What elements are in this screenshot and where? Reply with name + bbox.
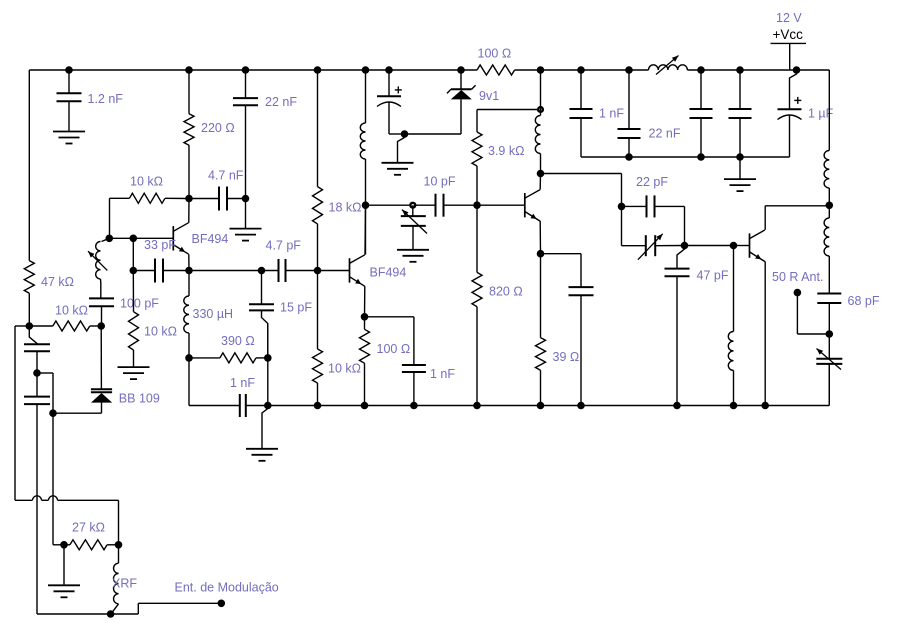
svg-text:68 pF: 68 pF xyxy=(848,294,880,308)
svg-text:3.9 kΩ: 3.9 kΩ xyxy=(488,144,524,158)
capacitor C21 33pF xyxy=(133,259,189,283)
wire between base junctions xyxy=(109,237,133,239)
ground below C1 xyxy=(53,132,85,144)
node top rail junctions xyxy=(65,66,800,74)
svg-text:10 kΩ: 10 kΩ xyxy=(130,175,163,189)
wire 3.9k top to ring xyxy=(477,109,537,111)
resistor R12 10k xyxy=(129,271,139,368)
svg-text:390 Ω: 390 Ω xyxy=(221,334,255,348)
label 22 pF xyxy=(636,175,668,189)
svg-text:BB 109: BB 109 xyxy=(119,392,160,406)
node 27k right xyxy=(115,541,123,549)
wire 47k node to left xyxy=(15,326,29,500)
inductor L2 xyxy=(535,70,540,174)
node Q2 emitter junction xyxy=(361,313,369,321)
resistor R4 100ohm xyxy=(477,65,515,75)
label 100 pF xyxy=(120,297,159,311)
wire Q3 collector xyxy=(539,174,541,190)
label 47 kohm xyxy=(41,275,74,289)
capacitor C23 xyxy=(24,326,50,373)
label 100 ohm vertical xyxy=(377,342,411,356)
ground below inner rail xyxy=(724,157,756,191)
wire inner rail xyxy=(581,156,790,158)
node Q4 base junction xyxy=(730,242,738,250)
inductor L8 XRF xyxy=(111,545,119,614)
resistor R1 220ohm xyxy=(184,70,194,199)
diode D2 BB109 xyxy=(53,326,112,413)
capacitor C2 22nF xyxy=(233,70,258,199)
ground below bottom rail xyxy=(246,406,278,461)
label 390 ohm xyxy=(221,334,255,348)
wire Q2 emitter xyxy=(364,286,366,317)
svg-text:330 µH: 330 µH xyxy=(193,307,234,321)
arrow C13 trimmer xyxy=(638,234,663,260)
svg-text:100 Ω: 100 Ω xyxy=(377,342,411,356)
wire down to 27k right xyxy=(118,500,120,545)
label 68 pF xyxy=(848,294,880,308)
svg-text:15 pF: 15 pF xyxy=(280,301,312,315)
label BB 109 xyxy=(119,392,160,406)
capacitor C1 1.2nF xyxy=(57,70,82,132)
label 22 nF xyxy=(265,95,297,109)
wire hop horizontal xyxy=(15,496,119,501)
ground below 27k xyxy=(48,545,80,598)
label 820 ohm xyxy=(489,285,523,299)
resistor R7 820ohm xyxy=(472,205,482,405)
svg-text:39 Ω: 39 Ω xyxy=(553,350,580,364)
arrow L3 xyxy=(656,56,679,75)
capacitor C24 xyxy=(24,373,50,614)
node 68pF bottom xyxy=(826,330,834,338)
node 15pF bottom xyxy=(264,354,272,362)
node D2 return xyxy=(49,409,57,417)
inductor L6 xyxy=(824,205,829,293)
wire D2 return down xyxy=(53,413,64,545)
wire bottom rail xyxy=(246,364,830,406)
wire Q2 collector xyxy=(364,205,367,254)
label 15 pF xyxy=(280,301,312,315)
node 22nF bottom xyxy=(242,195,250,203)
label 10 pF xyxy=(424,175,456,189)
node modulation terminal xyxy=(218,600,226,608)
svg-text:47 kΩ: 47 kΩ xyxy=(41,275,74,289)
label 1 nF x581 xyxy=(599,107,624,121)
capacitor C10 68pF xyxy=(817,294,841,335)
capacitor C5 1nF xyxy=(570,70,593,157)
resistor R8 100ohm xyxy=(360,317,370,406)
node L1 bottom xyxy=(362,201,370,209)
wire loop to Q4 base xyxy=(685,245,734,247)
ground below 22nF xyxy=(230,199,262,241)
label 1.2 nF xyxy=(88,92,124,106)
resistor R10 47k xyxy=(24,261,34,326)
capacitor C7 xyxy=(690,70,713,157)
resistor R13 27k xyxy=(64,540,119,550)
capacitor C8 xyxy=(729,70,752,157)
svg-text:18 kΩ: 18 kΩ xyxy=(329,201,362,215)
svg-text:22 pF: 22 pF xyxy=(636,175,668,189)
wire 330uH down xyxy=(188,358,190,406)
resistor R14 390ohm xyxy=(189,353,268,363)
inductor L7 variable xyxy=(96,238,110,298)
svg-text:4.7 pF: 4.7 pF xyxy=(266,239,302,253)
plus sign C4 xyxy=(395,86,402,93)
label 12 V xyxy=(776,11,802,25)
inductor L4 xyxy=(728,246,733,406)
label 50 R Ant xyxy=(772,270,823,284)
resistor R6 39ohm xyxy=(536,254,546,406)
wire Q3 base xyxy=(477,204,525,206)
label 4.7 pF xyxy=(266,239,302,253)
svg-text:22 nF: 22 nF xyxy=(265,95,297,109)
svg-text:820 Ω: 820 Ω xyxy=(489,285,523,299)
wire top rail left section xyxy=(29,69,477,71)
node 22pF right bottom xyxy=(681,242,689,250)
label 18 kohm xyxy=(329,201,362,215)
label 1 nF x414 xyxy=(430,367,455,381)
node R11 right xyxy=(97,322,105,330)
node Q2 base junction xyxy=(314,267,322,275)
svg-text:100 Ω: 100 Ω xyxy=(478,47,512,61)
capacitor C11 trimmer xyxy=(816,334,842,406)
inductor L1 xyxy=(360,70,365,205)
label Ent. de Modulacao xyxy=(175,581,279,595)
wire 390 bottom junction xyxy=(267,324,269,406)
label 47 pF xyxy=(697,269,729,283)
node 33pF left xyxy=(130,267,138,275)
inductor L5 xyxy=(824,151,829,206)
svg-text:220 Ω: 220 Ω xyxy=(201,121,235,135)
wire Q1 emitter xyxy=(188,254,190,270)
svg-text:+Vcc: +Vcc xyxy=(773,27,804,42)
node XRF bottom xyxy=(107,610,115,618)
arrow C17 trimmer xyxy=(402,210,427,234)
label 1 nF bottom xyxy=(230,376,255,390)
node 330uH bottom xyxy=(185,354,193,362)
capacitor C13 trimmer xyxy=(622,206,685,256)
node ring trimmer top xyxy=(409,202,416,209)
wire Q2 base xyxy=(318,270,350,272)
wire to 22pF loop xyxy=(541,174,622,207)
node C4/zener bottom xyxy=(401,130,409,138)
capacitor C19 15pF xyxy=(249,271,274,358)
svg-text:47 pF: 47 pF xyxy=(697,269,729,283)
label 39 ohm xyxy=(553,350,580,364)
inductor L3 variable xyxy=(649,65,688,70)
svg-text:10 kΩ: 10 kΩ xyxy=(328,362,361,376)
wire bottom xyxy=(37,603,221,614)
wire bottom rail left xyxy=(189,405,240,407)
svg-text:22 nF: 22 nF xyxy=(649,127,681,141)
capacitor C16 10pF xyxy=(366,194,478,217)
wire base junction vertical xyxy=(132,238,134,270)
label 100 ohm top xyxy=(478,47,512,61)
label 33 pF xyxy=(144,238,176,252)
label 4.7 nF xyxy=(208,169,244,183)
capacitor C6 22nF xyxy=(618,70,641,157)
node Q1 emitter junction xyxy=(185,267,193,275)
node R2 right xyxy=(185,195,193,203)
capacitor C17 trimmer xyxy=(401,205,426,250)
svg-text:33 pF: 33 pF xyxy=(144,238,176,252)
node 47k bottom xyxy=(26,322,34,330)
svg-text:9v1: 9v1 xyxy=(479,89,499,103)
node L2 bottom xyxy=(537,170,545,178)
wire top rail right section xyxy=(687,69,829,71)
node bottom rail junctions xyxy=(264,402,769,410)
capacitor C20 4.7pF xyxy=(262,259,318,282)
label 220 ohm xyxy=(201,121,235,135)
node C23 bottom xyxy=(33,369,41,377)
wire Q4 emitter xyxy=(764,261,766,405)
label 3.9 kohm xyxy=(488,144,524,158)
label 10 kohm mid xyxy=(55,304,88,318)
wire Q1 collector xyxy=(188,199,190,223)
arrow L7 xyxy=(88,251,107,270)
wire C4 bottom to node xyxy=(389,133,405,135)
resistor R11 10k xyxy=(29,321,101,331)
transistor Q4 xyxy=(750,230,765,262)
label XRF xyxy=(112,577,137,591)
svg-text:27 kΩ: 27 kΩ xyxy=(72,521,105,535)
inductor L9 330uH xyxy=(184,271,189,358)
ground below C4 xyxy=(382,163,414,175)
label 9v1 xyxy=(479,89,499,103)
capacitor C15 xyxy=(541,254,594,406)
resistor R9 10k xyxy=(313,271,323,406)
capacitor C9 1uF xyxy=(778,70,802,157)
svg-text:10 kΩ: 10 kΩ xyxy=(55,304,88,318)
capacitor C22 100pF xyxy=(89,298,114,326)
label 10 kohm x317 xyxy=(328,362,361,376)
node inner rail junctions xyxy=(625,153,744,161)
capacitor C4 electrolytic xyxy=(377,70,401,134)
wire Q1 base xyxy=(133,237,173,239)
capacitor C3 4.7nF xyxy=(189,187,246,211)
svg-text:1 nF: 1 nF xyxy=(599,107,624,121)
svg-text:10 pF: 10 pF xyxy=(424,175,456,189)
wire L1 to Q2 collector xyxy=(365,205,367,254)
resistor R2 10k xyxy=(110,193,190,238)
svg-text:BF494: BF494 xyxy=(370,266,407,280)
capacitor C25 1nF xyxy=(240,394,246,417)
capacitor C14 47pF xyxy=(665,246,690,406)
wire Q3 emitter xyxy=(539,221,541,254)
svg-text:1.2 nF: 1.2 nF xyxy=(88,92,124,106)
node 15pF top xyxy=(258,267,266,275)
node 27k left xyxy=(60,541,68,549)
plus sign C9 xyxy=(794,97,801,104)
label BF494 Q2 xyxy=(370,266,407,280)
antenna terminal node xyxy=(794,289,802,297)
node base junctions xyxy=(106,235,138,243)
label BF494 Q1 xyxy=(192,232,229,246)
svg-text:BF494: BF494 xyxy=(192,232,229,246)
node right collector junction xyxy=(826,202,834,210)
label 10 kohm top xyxy=(130,175,163,189)
resistor R3 18k xyxy=(313,70,323,271)
transistor Q2 xyxy=(350,255,365,286)
arrow C11 trimmer xyxy=(817,349,842,370)
label 10 kohm x133 xyxy=(144,325,177,339)
ground below C17 xyxy=(397,250,429,262)
node Q3 emitter junction xyxy=(537,250,545,258)
node ring L2 top xyxy=(537,106,544,113)
capacitor C12 22pF xyxy=(622,195,685,245)
wire Q4 base xyxy=(734,245,750,247)
wire left edge vertical xyxy=(28,70,30,261)
transistor Q1 xyxy=(173,223,188,255)
label 27 kohm xyxy=(72,521,105,535)
resistor R5 3.9k xyxy=(472,110,482,206)
node 22pF left xyxy=(618,203,626,211)
svg-text:100 pF: 100 pF xyxy=(120,297,159,311)
label 22 nF x629 xyxy=(649,127,681,141)
diode D1 zener 9v1 xyxy=(447,70,476,99)
node Q3 base junction xyxy=(473,201,481,209)
svg-text:12 V: 12 V xyxy=(776,11,802,25)
svg-text:50 R Ant.: 50 R Ant. xyxy=(772,270,823,284)
capacitor C18 1nF xyxy=(365,317,426,406)
ground below R12 xyxy=(118,367,150,379)
svg-text:1 nF: 1 nF xyxy=(430,367,455,381)
wire right edge top xyxy=(828,70,830,151)
svg-text:4.7 nF: 4.7 nF xyxy=(208,169,244,183)
svg-text:XRF: XRF xyxy=(112,577,137,591)
wire Q4 collector xyxy=(765,206,829,230)
transistor Q3 xyxy=(525,190,540,222)
ground stem G3 xyxy=(398,134,405,163)
label 1 uF xyxy=(808,107,834,121)
wire 33pF to 4.7pF xyxy=(189,270,262,272)
wire top rail mid section xyxy=(515,69,649,71)
wire C23 node to D2 return xyxy=(37,373,53,413)
svg-text:1 nF: 1 nF xyxy=(230,376,255,390)
svg-text:10 kΩ: 10 kΩ xyxy=(144,325,177,339)
power +Vcc xyxy=(771,27,807,70)
svg-text:Ent. de Modulação: Ent. de Modulação xyxy=(175,581,279,595)
label 330 uH xyxy=(193,307,234,321)
wire antenna xyxy=(797,293,829,334)
wire zener bottom xyxy=(405,99,462,134)
